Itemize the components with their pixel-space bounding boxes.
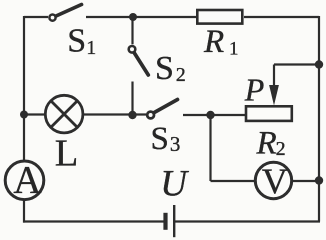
lamp L (45, 95, 83, 133)
wire voltmeter right lead (292, 180, 319, 182)
battery cell (163, 205, 175, 237)
svg-text:R2: R2 (256, 126, 286, 162)
wire S1 fixed contact to junction (86, 16, 133, 18)
wire left side vertical upper (23, 16, 25, 161)
switch S3 (147, 100, 177, 119)
svg-text:L: L (55, 132, 79, 174)
switch S1 (49, 5, 81, 21)
wire bottom left to battery (23, 220, 164, 222)
wire wiper tap horizontal (274, 63, 319, 65)
wiper arrow head P (269, 85, 279, 106)
wire left junction to lamp (24, 113, 46, 115)
resistor R2 (rheostat) (246, 106, 292, 121)
svg-text:A: A (13, 158, 41, 201)
wire S3 fixed contact to node (183, 114, 246, 116)
junction node on top wire (129, 13, 137, 21)
junction node lamp wire / S2 branch (128, 111, 136, 119)
svg-text:S2: S2 (155, 50, 186, 87)
svg-text:S1: S1 (67, 23, 96, 60)
svg-text:S3: S3 (151, 121, 181, 157)
wire battery to bottom-right (175, 220, 320, 222)
svg-text:V: V (262, 161, 288, 201)
resistor R1 (197, 10, 242, 24)
ammeter A (5, 161, 44, 200)
wire right side vertical (318, 16, 320, 222)
svg-text:R1: R1 (203, 24, 238, 60)
wire node down to voltmeter (209, 115, 211, 181)
junction node wiper tap on right wire (315, 60, 323, 68)
wire S2 fixed contact down to lamp-line junction (131, 82, 133, 116)
wire wiper vertical (273, 65, 275, 91)
svg-text:U: U (160, 164, 189, 205)
wire junction to S2 pivot (131, 17, 133, 44)
wire junction to R1 (133, 16, 197, 18)
junction node R2 left (206, 111, 214, 119)
wire lamp to S3 junction (83, 113, 146, 115)
junction node left wire / lamp (20, 111, 28, 119)
voltmeter V (255, 162, 291, 198)
junction node voltmeter right (315, 176, 323, 184)
wire left side vertical lower (23, 200, 25, 223)
wire voltmeter left lead (211, 180, 256, 182)
svg-text:P: P (244, 71, 265, 107)
wire top-left to S1 pivot (24, 16, 48, 18)
switch S2 (129, 46, 149, 75)
wire R1 to top-right corner (244, 16, 319, 18)
